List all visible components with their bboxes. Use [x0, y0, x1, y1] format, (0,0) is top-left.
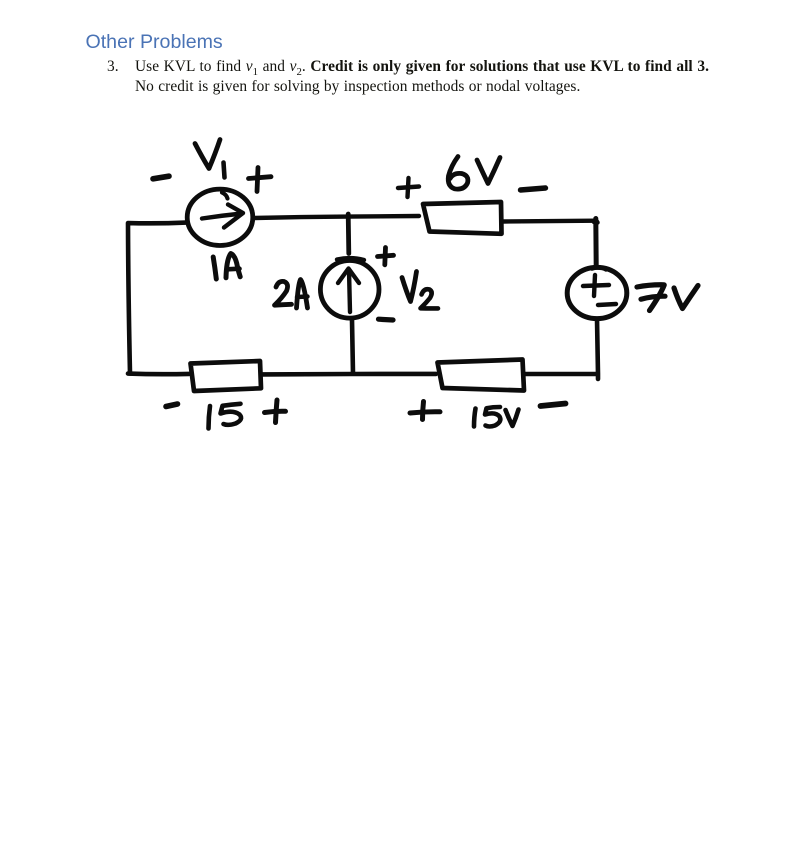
minus (6V right) [521, 188, 546, 190]
wire: bottom right [525, 372, 597, 377]
minus (15 left) [166, 404, 178, 407]
plus (15V left) [410, 402, 440, 420]
label 15 [209, 404, 242, 429]
label 1A [213, 254, 240, 279]
plus (15 right) [265, 400, 286, 423]
minus (V2 bottom) [379, 317, 394, 323]
wire: top middle (source to 6V box, through node) [254, 216, 419, 218]
label 2A [275, 280, 308, 309]
plus (right of V1) [249, 168, 272, 192]
label V1 [195, 140, 225, 178]
minus (left of V1) [153, 176, 169, 179]
plus (6V left) [398, 178, 419, 197]
label 7V [637, 285, 698, 311]
current source U1 (1A, arrow right) [187, 189, 253, 245]
current source U2 (2A, arrow up) [320, 258, 379, 318]
wire: right branch lower [597, 319, 598, 379]
resistor/box 6V [423, 202, 502, 234]
plus (V2 top) [378, 248, 394, 265]
minus (15V right) [541, 404, 566, 407]
wire: top right (6V to right corner) [503, 218, 596, 223]
resistor/box 15V [438, 360, 525, 391]
resistor/box 15 [191, 361, 262, 391]
source U3 (7V) [567, 267, 627, 318]
label 6V [448, 157, 500, 190]
wire: middle branch lower [352, 320, 353, 374]
label 15V [474, 407, 519, 427]
wire: middle branch upper [346, 214, 351, 254]
wire: bottom left [128, 371, 189, 376]
wire: right branch upper [594, 219, 598, 267]
wire: bottom middle [262, 372, 436, 377]
wire: left branch (top-left horizontal + left vertical) [128, 223, 186, 374]
label V2 [402, 272, 438, 309]
